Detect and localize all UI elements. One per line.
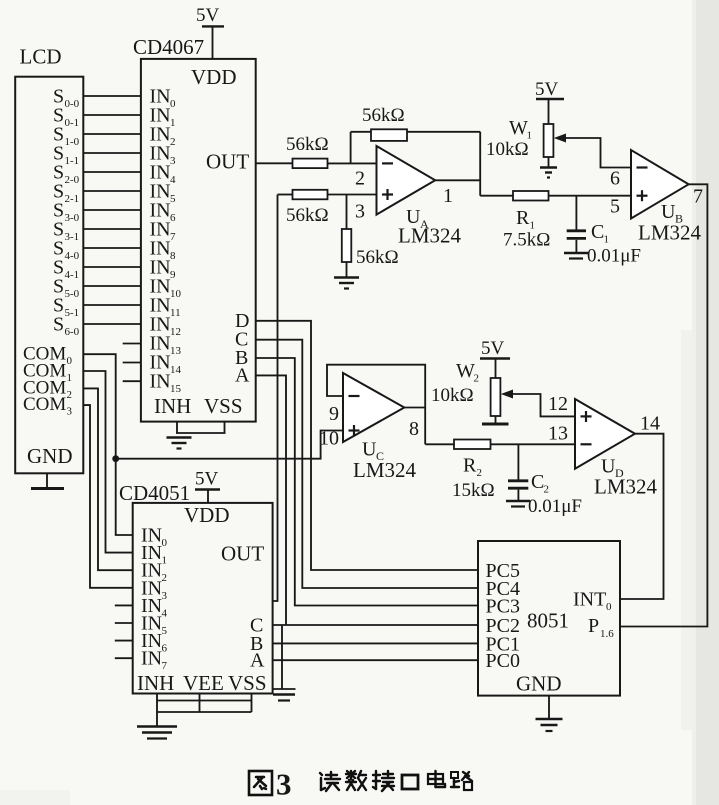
op-amp U_A LM324: [377, 146, 462, 248]
wires LCD segment outputs S0-0..S6-0 to CD4067 IN0..IN12: [83, 96, 141, 324]
svg-text:14: 14: [640, 413, 660, 435]
caption: figure 3 readout interface circuit: [249, 771, 272, 795]
svg-text:VSS: VSS: [204, 394, 243, 418]
svg-text:CD4067: CD4067: [133, 35, 204, 59]
ground at W1: [540, 168, 557, 178]
svg-text:1: 1: [162, 555, 168, 567]
CD4051 INH VEE VSS ground rail: [137, 694, 252, 739]
svg-text:OUT: OUT: [206, 150, 249, 174]
svg-text:LM324: LM324: [353, 458, 417, 482]
wire resistor to UA pin 2: [328, 162, 377, 164]
IC LCD display module: [15, 45, 83, 474]
wire UC feedback loop: [327, 365, 425, 445]
wire UA output node to R1: [480, 195, 513, 197]
svg-text:3-1: 3-1: [65, 231, 80, 243]
5V supply for W2: [480, 338, 510, 378]
svg-text:6: 6: [610, 168, 620, 190]
svg-text:2-1: 2-1: [65, 193, 80, 205]
svg-text:7.5kΩ: 7.5kΩ: [503, 230, 550, 251]
wire COM3 to CD4051 IN3: [83, 405, 132, 588]
svg-text:IN: IN: [141, 648, 162, 670]
svg-text:IN: IN: [150, 371, 171, 393]
wire W1 wiper to UB pin 6: [564, 138, 631, 168]
svg-text:R: R: [516, 207, 530, 229]
svg-text:0.01μF: 0.01μF: [528, 496, 582, 517]
svg-text:5-1: 5-1: [65, 307, 80, 319]
wire CD4051 OUT up to UA non-inverting resistor: [273, 195, 278, 602]
wire feedback top left segment: [351, 131, 371, 133]
svg-text:6-0: 6-0: [65, 326, 80, 338]
svg-text:5V: 5V: [535, 79, 559, 100]
svg-text:9: 9: [329, 403, 339, 425]
svg-text:VDD: VDD: [191, 65, 237, 89]
svg-text:C: C: [531, 471, 544, 493]
wire UA pin3 to grounding resistor: [346, 195, 348, 230]
op-amp U_B LM324: [631, 150, 702, 245]
wire UD output pin 14 to 8051 INT0: [620, 434, 664, 599]
svg-text:2: 2: [477, 467, 483, 479]
svg-text:10: 10: [319, 428, 339, 450]
svg-text:5: 5: [170, 193, 176, 205]
svg-text:GND: GND: [27, 444, 73, 468]
wire W1 bottom to ground: [548, 157, 550, 167]
svg-text:A: A: [235, 364, 250, 386]
svg-text:5-0: 5-0: [65, 288, 80, 300]
svg-text:COM: COM: [23, 394, 66, 415]
wire CD4067 OUT to input resistor: [256, 162, 293, 164]
resistor R1 7.5k: [503, 191, 550, 251]
CD4067 INH VSS ground: [167, 422, 226, 449]
junction node COM0: [112, 455, 119, 462]
LCD ground: [31, 473, 64, 488]
svg-text:3: 3: [67, 406, 73, 418]
svg-text:2: 2: [67, 389, 73, 401]
svg-text:INH: INH: [137, 671, 174, 695]
svg-text:56kΩ: 56kΩ: [286, 134, 329, 155]
svg-text:1-1: 1-1: [65, 155, 80, 167]
svg-text:P: P: [588, 615, 599, 637]
svg-text:13: 13: [548, 423, 568, 445]
ground at C1: [564, 253, 588, 259]
svg-text:S: S: [53, 314, 64, 336]
svg-text:0: 0: [67, 355, 73, 367]
wire feedback tap at UA inverting input: [350, 132, 352, 164]
svg-text:W: W: [456, 360, 475, 382]
svg-text:14: 14: [170, 364, 182, 376]
wire CD4067 B to 8051 PC3: [256, 358, 478, 606]
svg-text:9: 9: [170, 269, 176, 281]
potentiometer W1 10k: [486, 117, 566, 160]
svg-text:11: 11: [170, 307, 181, 319]
IC U3 8051 microcontroller: [478, 541, 620, 696]
IC U2 CD4051 8-channel multiplexer: [119, 481, 273, 695]
svg-text:2: 2: [544, 484, 550, 496]
svg-text:5V: 5V: [195, 469, 219, 490]
svg-text:VEE: VEE: [183, 671, 224, 695]
svg-text:LM324: LM324: [398, 224, 462, 248]
svg-text:5: 5: [162, 625, 168, 637]
wire R1 to UB pin 5: [549, 195, 632, 197]
wire UC output: [404, 407, 425, 409]
svg-text:56kΩ: 56kΩ: [286, 205, 329, 226]
svg-text:7: 7: [170, 231, 176, 243]
svg-text:LM324: LM324: [594, 475, 658, 499]
svg-text:LCD: LCD: [20, 45, 62, 69]
unconnected stubs CD4051 IN4..IN7: [115, 605, 133, 658]
wire R2 to UD pin 13: [491, 443, 576, 445]
svg-text:6: 6: [162, 643, 168, 655]
svg-text:56kΩ: 56kΩ: [362, 105, 405, 126]
svg-text:0: 0: [162, 537, 168, 549]
wire CD4051 OUT line to 56k resistor into UA pin 3: [278, 194, 293, 196]
svg-text:1-0: 1-0: [65, 136, 80, 148]
svg-text:C: C: [591, 221, 604, 243]
svg-text:3: 3: [276, 767, 292, 802]
svg-text:CD4051: CD4051: [119, 481, 190, 505]
resistor 56k feedback of UA: [362, 105, 407, 141]
svg-text:R: R: [463, 455, 477, 477]
wire COM1 to CD4051 IN1: [83, 371, 132, 553]
svg-text:0: 0: [170, 98, 176, 110]
svg-text:VSS: VSS: [228, 671, 267, 695]
wire CD4067 C to 8051 PC4: [256, 340, 478, 588]
wire COM0 to CD4051 IN0 and UC input: [83, 354, 132, 535]
wire CD4051 B to 8051 PC1: [273, 642, 478, 644]
wire feedback resistor to UA output node: [407, 131, 480, 133]
5V supply for CD4067: [196, 5, 224, 26]
unconnected stubs CD4067 IN13 IN14 IN15: [123, 344, 141, 382]
wire resistor to UA pin 3: [328, 194, 377, 196]
svg-text:3: 3: [355, 201, 365, 223]
wire COM0 node to UC non-inverting input pin 10: [116, 431, 343, 459]
svg-text:1: 1: [443, 185, 453, 207]
wire COM2 to CD4051 IN2: [83, 388, 132, 570]
wire UA output node vertical: [479, 132, 481, 196]
svg-text:2: 2: [474, 373, 480, 385]
resistor 56k to UA non-inverting input: [286, 190, 329, 226]
svg-text:0-0: 0-0: [65, 98, 80, 110]
svg-text:13: 13: [170, 345, 182, 357]
svg-text:GND: GND: [516, 672, 562, 696]
svg-text:4: 4: [162, 607, 168, 619]
wire CD4051 A to 8051 PC0: [273, 659, 478, 661]
wire W2 wiper to UD pin 12: [511, 394, 575, 416]
8051 ground: [536, 696, 563, 731]
svg-text:10: 10: [170, 288, 182, 300]
resistor 56k to UA inverting input: [286, 134, 329, 168]
svg-text:5: 5: [610, 196, 620, 218]
svg-text:LM324: LM324: [638, 221, 702, 245]
resistor R2 15k: [452, 440, 495, 502]
wire CD4051 C and 8051 PC2: [273, 624, 478, 626]
wire UC output node to R2: [425, 443, 454, 445]
svg-text:8051: 8051: [527, 609, 569, 633]
svg-text:3: 3: [162, 590, 168, 602]
svg-text:2: 2: [170, 136, 176, 148]
op-amp U_D LM324: [575, 399, 658, 499]
svg-text:INH: INH: [154, 394, 191, 418]
svg-text:4-0: 4-0: [65, 250, 80, 262]
svg-text:INT: INT: [573, 589, 606, 611]
svg-text:7: 7: [693, 186, 703, 208]
svg-text:10kΩ: 10kΩ: [431, 385, 474, 406]
wire 5V to CD4067 VDD: [212, 26, 214, 59]
svg-text:1.6: 1.6: [600, 628, 614, 640]
svg-text:0: 0: [606, 601, 612, 613]
svg-text:5V: 5V: [481, 338, 505, 359]
svg-text:1: 1: [604, 234, 610, 246]
ground at UA 56k resistor: [334, 278, 359, 289]
svg-text:0-1: 0-1: [65, 117, 80, 129]
svg-text:PC0: PC0: [486, 650, 520, 672]
ground at C2: [506, 501, 530, 507]
wire UB output pin 7 to 8051 P1.6: [620, 184, 707, 626]
5V supply for W1: [535, 79, 564, 124]
svg-text:A: A: [250, 650, 265, 672]
wire W2 bottom to ground bar: [495, 416, 497, 423]
wire CD4067 D to 8051 PC5: [256, 321, 478, 570]
svg-text:W: W: [509, 117, 528, 139]
svg-text:2-0: 2-0: [65, 174, 80, 186]
wire CD4051 right side to ground: [273, 625, 296, 701]
wire grounding resistor to ground: [346, 262, 348, 277]
svg-text:2: 2: [162, 572, 168, 584]
svg-text:8: 8: [409, 418, 419, 440]
capacitor C2 0.01uF: [508, 444, 582, 517]
svg-text:0.01μF: 0.01μF: [587, 246, 641, 267]
capacitor C1 0.01uF: [567, 196, 641, 267]
resistor 56k to ground at UA pin 3: [342, 229, 399, 268]
svg-text:12: 12: [170, 326, 181, 338]
svg-text:5V: 5V: [196, 5, 220, 26]
svg-text:2: 2: [355, 168, 365, 190]
svg-text:4: 4: [170, 174, 176, 186]
svg-text:4-1: 4-1: [65, 269, 80, 281]
svg-text:OUT: OUT: [221, 542, 264, 566]
wire CD4067 A to PC2 line: [256, 375, 286, 625]
svg-text:1: 1: [170, 117, 176, 129]
5V supply for CD4051: [195, 469, 220, 503]
svg-text:1: 1: [67, 372, 73, 384]
svg-text:10kΩ: 10kΩ: [486, 139, 529, 160]
op-amp U_C LM324: [343, 373, 417, 482]
svg-text:3-0: 3-0: [65, 212, 80, 224]
svg-text:3: 3: [170, 155, 176, 167]
svg-text:8: 8: [170, 250, 176, 262]
svg-text:12: 12: [548, 393, 568, 415]
svg-text:6: 6: [170, 212, 176, 224]
svg-text:15kΩ: 15kΩ: [452, 480, 495, 501]
ground bar at W2: [482, 423, 509, 426]
potentiometer W2 10k: [431, 360, 513, 416]
svg-text:VDD: VDD: [184, 503, 230, 527]
wire UA output: [435, 179, 480, 181]
svg-text:56kΩ: 56kΩ: [356, 247, 399, 268]
IC U1 CD4067 16-channel multiplexer: [133, 35, 256, 422]
